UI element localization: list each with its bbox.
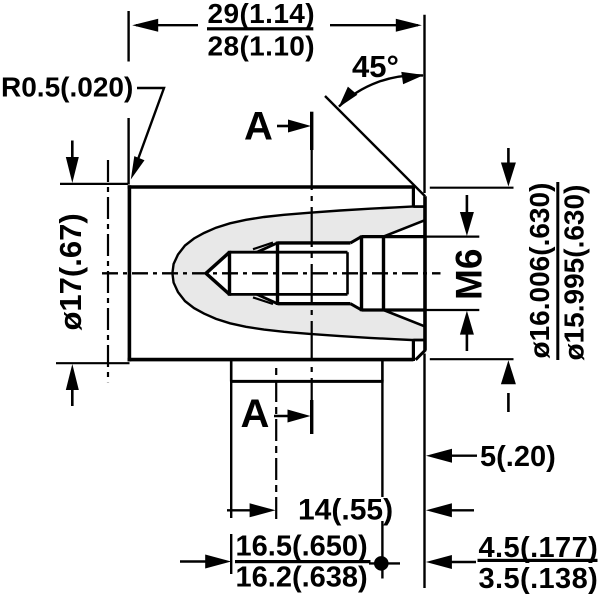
ext line dia16 bottom xyxy=(430,358,514,360)
M6 ext line top xyxy=(425,236,479,238)
svg-text:A: A xyxy=(244,105,273,149)
dim 4.5/3.5 arrow xyxy=(448,561,476,563)
kink to counterbore bottom xyxy=(351,304,362,310)
tab right edge xyxy=(381,360,384,381)
dia16 top arrow xyxy=(507,148,510,166)
45deg arc xyxy=(339,75,423,106)
ext line dia17 top xyxy=(60,183,128,185)
spring outer curve bottom xyxy=(172,273,423,340)
ext x=231.2 xyxy=(230,381,232,518)
groove bottom bottom-right xyxy=(413,339,424,342)
svg-text:ø16.006(.630): ø16.006(.630) xyxy=(524,183,555,359)
dia16 bottom arrow xyxy=(507,393,510,412)
counterbore ring face 1 xyxy=(360,235,363,311)
dim line to origin dot xyxy=(369,562,400,564)
step bottom xyxy=(412,340,415,361)
body left face xyxy=(128,185,132,361)
counterbore ring face 2 xyxy=(382,235,385,311)
fraction bar 29/28 xyxy=(207,27,313,30)
dia17 bottom arrow xyxy=(71,387,74,406)
M6 bottom arrow xyxy=(466,332,469,351)
svg-text:28(1.10): 28(1.10) xyxy=(208,31,316,62)
ext line left x=128.6 xyxy=(127,11,129,62)
leaf spring cross-section (gray) xyxy=(172,207,424,340)
body bottom edge xyxy=(128,358,414,362)
drill cone xyxy=(206,252,230,294)
ext line dia16 top xyxy=(430,187,514,189)
dim 5(.20) xyxy=(448,455,477,457)
dia17 top arrow xyxy=(71,141,74,161)
ext x=276.2 thread depth dashdot xyxy=(275,368,277,520)
svg-text:ø17(.67): ø17(.67) xyxy=(53,213,88,330)
spring end bevel bottom xyxy=(384,310,425,326)
thread major line top xyxy=(278,241,351,244)
dim line 29 right xyxy=(330,24,418,26)
groove bottom top-right xyxy=(413,205,424,208)
M6 ext line bottom xyxy=(425,309,479,311)
counterbore wall bottom xyxy=(362,308,426,311)
step top xyxy=(412,186,415,207)
spring inner slot line top xyxy=(253,243,273,250)
svg-text:16.2(.638): 16.2(.638) xyxy=(236,562,368,594)
dim 14(.55) right tail xyxy=(448,509,474,511)
vertical centerline x=108 xyxy=(107,160,109,382)
ext x=382.4 xyxy=(381,381,383,497)
svg-text:R0.5(.020): R0.5(.020) xyxy=(1,72,133,103)
svg-text:14(.55): 14(.55) xyxy=(298,494,393,527)
ext line right x=424.5 top xyxy=(423,15,425,193)
spring end bevel top xyxy=(384,220,425,236)
spring inner slot line bottom xyxy=(253,297,273,304)
arrow A bottom xyxy=(274,415,291,418)
counterbore wall top xyxy=(362,235,426,238)
section line A-A dash-dot xyxy=(311,150,313,400)
thread start chamfer bottom xyxy=(257,294,278,303)
svg-text:5(.20): 5(.20) xyxy=(480,441,556,473)
bore minor line bottom xyxy=(230,293,348,296)
dim line 29 left xyxy=(136,24,198,26)
right face xyxy=(423,196,427,350)
cone base vertical xyxy=(228,251,231,296)
svg-text:29(1.14): 29(1.14) xyxy=(208,0,316,29)
fraction bar vertical xyxy=(556,182,559,360)
tab bottom edge xyxy=(230,380,384,383)
dim 14(.55) left tail xyxy=(227,509,252,511)
chamfer 45deg extension diagonal xyxy=(325,96,425,196)
svg-text:45°: 45° xyxy=(352,49,399,84)
svg-text:ø15.995(.630): ø15.995(.630) xyxy=(559,185,590,361)
thread start chamfer top xyxy=(257,243,278,252)
arrow A top xyxy=(277,125,292,128)
leader R0.5 xyxy=(133,88,164,173)
M6 top arrow xyxy=(466,195,469,214)
bore minor line top xyxy=(230,251,348,254)
svg-text:M6: M6 xyxy=(449,249,490,300)
svg-text:3.5(.138): 3.5(.138) xyxy=(479,563,599,595)
dim 16.5 arrow xyxy=(180,560,209,562)
svg-text:16.5(.650): 16.5(.650) xyxy=(236,531,368,563)
kink to counterbore top xyxy=(351,237,362,243)
ext line dia17 bottom xyxy=(56,362,130,364)
body top edge xyxy=(128,185,414,189)
section line A-A top stub xyxy=(310,112,313,150)
section line A-A bottom stub xyxy=(310,400,313,434)
thread major line bottom xyxy=(278,302,351,305)
thread end vertical (depth line) xyxy=(276,242,279,306)
web vertical at thread end xyxy=(346,252,349,294)
chamfer bottom-right corner xyxy=(416,350,426,360)
horizontal centerline xyxy=(102,272,441,274)
ext x=424.5 bottom xyxy=(423,354,425,589)
origin dot xyxy=(374,556,389,571)
spring outer curve top xyxy=(172,207,423,274)
tab left edge xyxy=(230,360,233,381)
svg-text:A: A xyxy=(241,392,270,436)
